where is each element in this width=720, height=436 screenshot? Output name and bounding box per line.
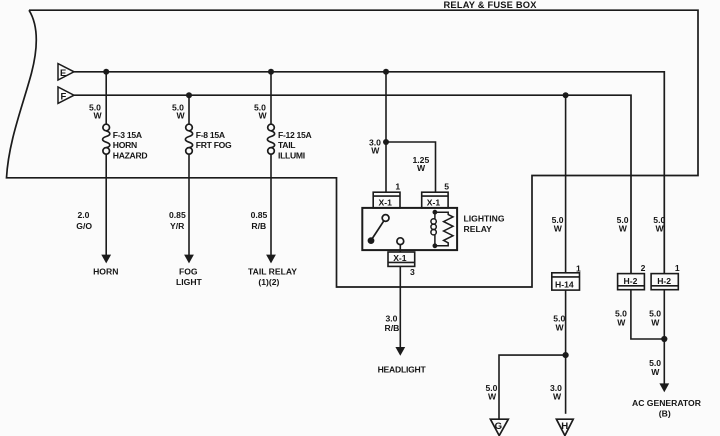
svg-text:LIGHT: LIGHT xyxy=(176,277,203,287)
wire H-14 column lower xyxy=(565,290,567,414)
svg-text:LIGHTING: LIGHTING xyxy=(464,214,505,224)
svg-text:0.85: 0.85 xyxy=(251,210,268,220)
arrow to AC GENERATOR xyxy=(659,383,669,392)
node AC generator merge xyxy=(661,336,667,342)
svg-text:Y/R: Y/R xyxy=(170,221,185,231)
arrow to TAIL RELAY xyxy=(266,255,276,264)
fuse F-8 15A xyxy=(185,124,192,154)
label TAIL RELAY (1)(2) xyxy=(248,267,297,288)
fuse F-3 15A xyxy=(103,124,110,154)
lighting relay box U1 xyxy=(362,208,457,250)
wire relay output stub xyxy=(399,245,401,252)
svg-text:5: 5 xyxy=(444,181,449,191)
label F-8 15A FRT FOG xyxy=(196,130,232,150)
svg-text:FRT FOG: FRT FOG xyxy=(196,140,232,150)
arrow to HEADLIGHT xyxy=(395,347,405,356)
svg-text:W: W xyxy=(94,110,103,120)
label F-12 15A TAIL ILLUMI xyxy=(278,130,312,161)
wire E bus xyxy=(74,72,664,273)
relay switch contact (open circle) xyxy=(382,215,389,222)
svg-text:W: W xyxy=(656,224,665,234)
wire horn column lower xyxy=(105,154,107,255)
node on E bus (relay column) xyxy=(383,69,389,75)
wire F bus xyxy=(74,95,631,273)
svg-text:X-1: X-1 xyxy=(393,253,407,263)
node relay coil bottom xyxy=(433,243,438,248)
wire fog column upper xyxy=(188,95,190,124)
svg-text:W: W xyxy=(177,110,186,120)
arrow to FOG LIGHT xyxy=(184,255,194,264)
label 0.85 R/B xyxy=(251,210,268,231)
wire fog column lower xyxy=(188,154,190,255)
relay switch arm xyxy=(373,221,384,238)
label 3.0 W (relay feed) xyxy=(369,138,381,156)
svg-text:RELAY & FUSE BOX: RELAY & FUSE BOX xyxy=(444,0,538,10)
node G/H branch xyxy=(563,352,569,358)
label 5.0 W (H-2 pin1 top) xyxy=(653,215,665,234)
svg-text:TAIL: TAIL xyxy=(278,140,295,150)
label 5.0 W (AC generator) xyxy=(649,358,661,377)
svg-text:AC GENERATOR: AC GENERATOR xyxy=(632,398,702,408)
svg-text:W: W xyxy=(651,367,660,377)
label 0.85 Y/R xyxy=(169,210,186,231)
svg-text:W: W xyxy=(651,318,660,328)
svg-text:TAIL RELAY: TAIL RELAY xyxy=(248,267,297,277)
wire headlight column xyxy=(399,266,401,347)
wire tail column lower xyxy=(270,154,272,255)
svg-text:ILLUMI: ILLUMI xyxy=(278,151,305,161)
connector E xyxy=(58,64,74,80)
svg-text:G: G xyxy=(495,421,502,432)
svg-text:W: W xyxy=(617,318,626,328)
relay switch common (filled dot) xyxy=(368,237,375,244)
label 5.0 W (horn fuse) xyxy=(89,102,103,120)
svg-text:HORN: HORN xyxy=(93,267,118,277)
svg-text:1: 1 xyxy=(576,263,581,273)
node on F bus (fog column) xyxy=(186,92,192,98)
connector H-2 pin 1 xyxy=(651,274,678,290)
svg-text:W: W xyxy=(488,392,497,402)
wire coil feed xyxy=(386,142,436,192)
svg-text:W: W xyxy=(556,323,565,333)
svg-text:HORN: HORN xyxy=(113,140,137,150)
wire H-2 pin2 lower xyxy=(631,290,664,339)
svg-text:(B): (B) xyxy=(659,409,671,419)
connector X-1 pin 5 xyxy=(422,192,448,208)
label 3.0 R/B xyxy=(385,313,400,333)
svg-text:R/B: R/B xyxy=(251,221,266,231)
node on F bus (H-14 column) xyxy=(563,92,569,98)
label 5.0 W (tail fuse) xyxy=(254,102,268,120)
node relay feed branch xyxy=(383,139,389,145)
svg-text:E: E xyxy=(60,67,66,78)
svg-text:H-2: H-2 xyxy=(624,276,638,286)
connector F xyxy=(58,87,74,103)
label 3.0 W (H branch) xyxy=(550,383,562,402)
ground connector H xyxy=(556,419,573,435)
wire H-2 pin1 lower xyxy=(663,290,665,384)
ground connector G xyxy=(490,419,508,435)
arrow to HORN xyxy=(101,255,111,264)
svg-text:HAZARD: HAZARD xyxy=(113,151,148,161)
fuse F-12 15A xyxy=(267,124,274,154)
connector H-14 xyxy=(552,273,580,290)
svg-text:W: W xyxy=(259,110,268,120)
wire tail column upper xyxy=(270,72,272,124)
node relay coil top xyxy=(433,210,438,215)
svg-text:(1)(2): (1)(2) xyxy=(258,277,279,287)
svg-text:G/O: G/O xyxy=(76,221,92,231)
svg-text:W: W xyxy=(371,145,380,155)
svg-text:X-1: X-1 xyxy=(427,198,441,208)
svg-text:H-2: H-2 xyxy=(657,276,671,286)
wire relay feed xyxy=(385,72,387,192)
label FOG LIGHT xyxy=(176,267,203,288)
wire H-14 column upper xyxy=(565,95,567,273)
svg-text:F: F xyxy=(61,90,67,101)
svg-text:0.85: 0.85 xyxy=(169,210,186,220)
svg-text:HEADLIGHT: HEADLIGHT xyxy=(378,364,427,374)
label 5.0 W (H-2 pin2 top) xyxy=(617,215,629,234)
svg-text:RELAY: RELAY xyxy=(464,224,493,234)
svg-text:H: H xyxy=(561,421,568,432)
svg-text:H-14: H-14 xyxy=(555,280,574,290)
label 5.0 W (below H-14) xyxy=(553,313,565,332)
label F-3 15A HORN HAZARD xyxy=(113,130,148,161)
svg-text:FOG: FOG xyxy=(179,267,198,277)
label 2.0 G/O xyxy=(76,210,92,231)
svg-text:2: 2 xyxy=(641,263,646,273)
label 5.0 W (below H-2 pin1) xyxy=(649,308,661,327)
node on E bus (tail column) xyxy=(268,69,274,75)
label AC GENERATOR (B) xyxy=(632,398,702,419)
svg-text:3: 3 xyxy=(410,267,415,277)
relay output contact (open circle) xyxy=(397,238,404,245)
svg-text:W: W xyxy=(553,392,562,402)
label 5.0 W (H-14 top) xyxy=(552,215,564,234)
svg-text:W: W xyxy=(417,163,426,173)
svg-text:W: W xyxy=(554,224,563,234)
wire horn column upper xyxy=(105,72,107,124)
svg-text:2.0: 2.0 xyxy=(78,210,90,220)
label LIGHTING RELAY xyxy=(464,214,505,234)
connector X-1 pin 1 xyxy=(373,192,400,208)
svg-text:X-1: X-1 xyxy=(379,198,393,208)
svg-text:W: W xyxy=(619,224,628,234)
node on E bus (horn column) xyxy=(103,69,109,75)
relay & fuse box outline xyxy=(7,10,699,287)
label 1.25 W (coil feed) xyxy=(413,155,430,173)
svg-text:1: 1 xyxy=(395,181,400,191)
relay resistor R xyxy=(435,212,453,246)
label 5.0 W (below H-2 pin2) xyxy=(615,308,627,327)
connector X-1 pin 3 xyxy=(388,252,415,266)
wire branch to G xyxy=(499,355,566,419)
svg-text:3.0: 3.0 xyxy=(386,313,398,323)
label 5.0 W (fog fuse) xyxy=(172,102,186,120)
svg-text:R/B: R/B xyxy=(385,323,400,333)
connector H-2 pin 2 xyxy=(618,274,645,290)
svg-text:1: 1 xyxy=(675,263,680,273)
relay coil L xyxy=(431,212,436,246)
svg-text:F-12 15A: F-12 15A xyxy=(278,130,312,140)
svg-text:F-3 15A: F-3 15A xyxy=(113,130,142,140)
label 5.0 W (G branch) xyxy=(486,383,498,402)
svg-text:F-8 15A: F-8 15A xyxy=(196,130,225,140)
